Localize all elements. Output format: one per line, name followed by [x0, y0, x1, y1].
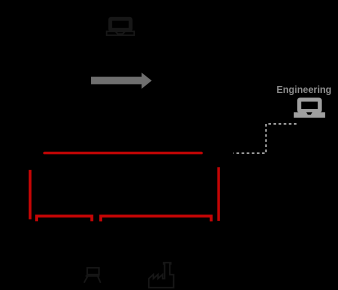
svg-text:Engineering: Engineering — [277, 85, 332, 96]
arrow (gray, pointing right) — [91, 73, 152, 89]
machine icon (faint dark) — [84, 268, 101, 283]
red right vertical — [217, 167, 220, 221]
red bracket 1 — [37, 216, 92, 221]
dashed connector wire (laptop to red bar) — [234, 124, 297, 153]
red top bar (phase line) — [45, 152, 202, 155]
laptop icon U2 (engineering, gray) — [294, 100, 325, 118]
laptop icon U1 (design workstation, faint dark) — [107, 19, 135, 35]
factory icon (faint dark) — [149, 263, 174, 288]
red bracket 2 — [101, 216, 212, 221]
red left vertical — [29, 170, 32, 219]
